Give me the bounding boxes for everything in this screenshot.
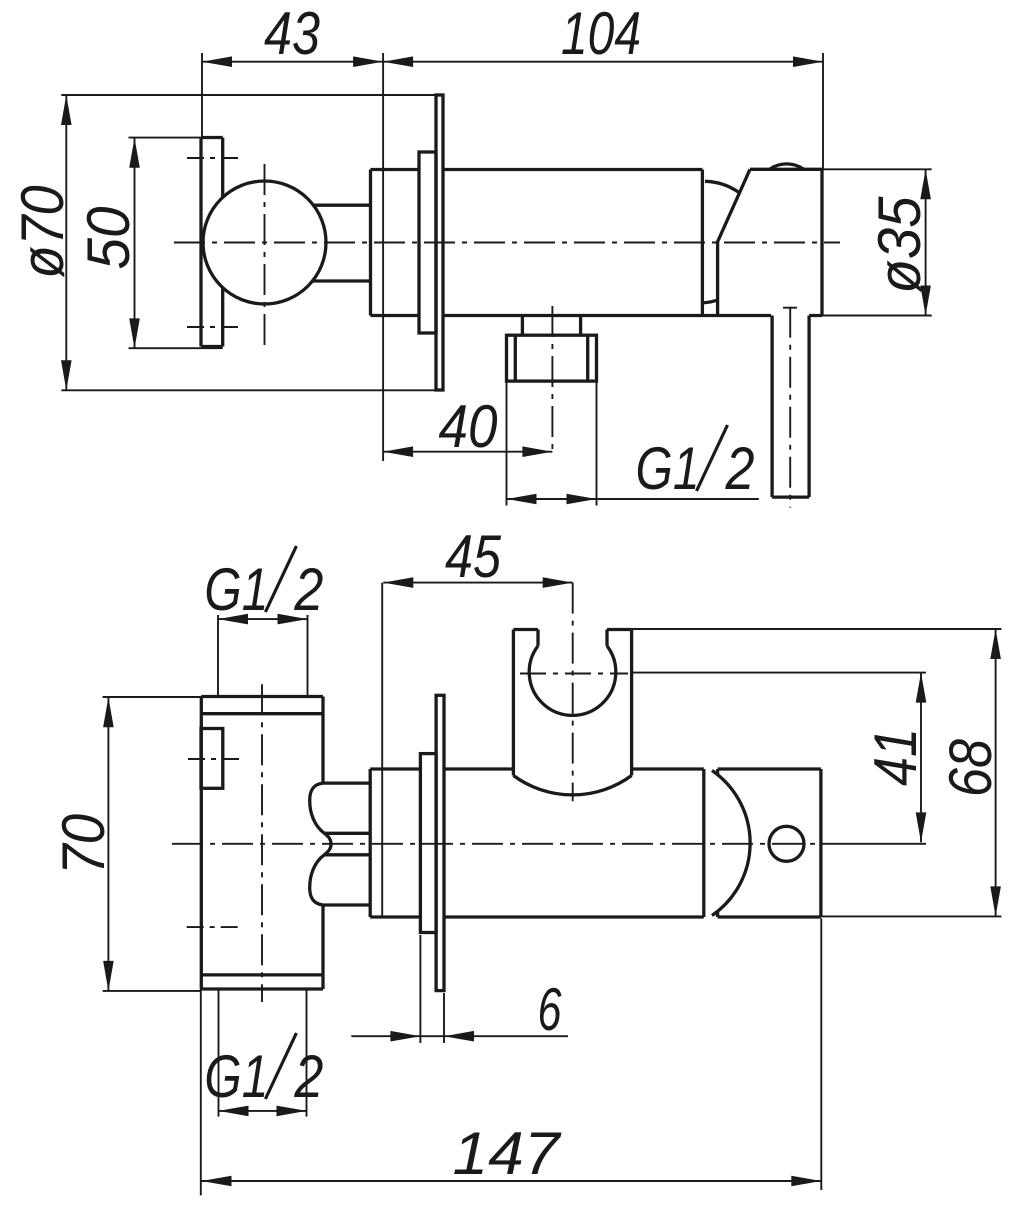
- svg-text:ø70: ø70: [9, 186, 76, 279]
- svg-text:43: 43: [264, 0, 320, 67]
- svg-text:G1: G1: [204, 1043, 268, 1110]
- svg-text:41: 41: [862, 728, 929, 786]
- svg-text:40: 40: [439, 393, 498, 460]
- svg-text:6: 6: [538, 976, 562, 1043]
- svg-text:2: 2: [725, 435, 755, 502]
- svg-text:G1: G1: [636, 435, 700, 502]
- svg-text:147: 147: [453, 1120, 563, 1187]
- svg-text:45: 45: [445, 523, 502, 590]
- svg-text:ø35: ø35: [866, 196, 933, 294]
- svg-text:68: 68: [937, 738, 1004, 797]
- svg-text:104: 104: [561, 0, 641, 67]
- svg-text:70: 70: [50, 814, 117, 875]
- svg-text:2: 2: [294, 556, 324, 623]
- svg-text:50: 50: [75, 207, 142, 270]
- svg-text:2: 2: [294, 1043, 324, 1110]
- svg-text:G1: G1: [204, 556, 268, 623]
